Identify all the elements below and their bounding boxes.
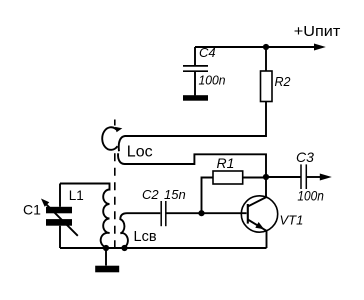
svg-text:C3: C3: [296, 149, 314, 165]
svg-text:R1: R1: [217, 155, 235, 171]
svg-text:+Uпит: +Uпит: [294, 24, 341, 40]
svg-text:Loc: Loc: [127, 143, 153, 160]
svg-text:15n: 15n: [164, 187, 186, 202]
svg-text:R2: R2: [275, 75, 291, 89]
svg-text:100n: 100n: [199, 72, 226, 87]
svg-text:100n: 100n: [297, 188, 324, 203]
svg-text:C1: C1: [23, 202, 41, 218]
svg-text:C4: C4: [199, 45, 216, 60]
svg-text:VT1: VT1: [280, 213, 304, 228]
svg-text:L1: L1: [69, 188, 84, 203]
svg-text:C2: C2: [142, 187, 159, 202]
svg-text:Lсв: Lсв: [134, 229, 157, 245]
